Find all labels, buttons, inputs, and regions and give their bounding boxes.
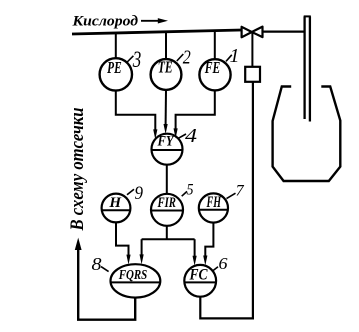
label: Кислород (oxygen inlet)	[71, 14, 138, 30]
oxygen lance tube	[304, 16, 311, 121]
instrument TE	[151, 58, 182, 90]
svg-text:5: 5	[187, 182, 194, 199]
wire: valve actuator stem	[251, 32, 253, 67]
wire: FY to FIR	[166, 165, 168, 194]
instrument FQRS	[110, 264, 160, 297]
instrument FH	[199, 193, 229, 222]
vessel (converter)	[273, 87, 341, 182]
instrument FIR	[151, 194, 183, 226]
svg-text:FIR: FIR	[157, 195, 176, 211]
label 6	[213, 254, 229, 273]
svg-text:FC: FC	[189, 267, 208, 284]
svg-text:1: 1	[230, 45, 240, 67]
svg-text:В схему отсечки: В схему отсечки	[67, 108, 88, 232]
label 4	[179, 125, 198, 147]
svg-text:7: 7	[236, 183, 245, 200]
label 5	[182, 182, 194, 199]
wire: pipe from valve to lance	[262, 31, 305, 33]
label 9	[127, 183, 143, 204]
svg-text:TE: TE	[158, 58, 173, 77]
wire: tap to PE	[115, 33, 117, 58]
flow arrow after Кислород	[141, 18, 168, 23]
label 3	[127, 47, 142, 72]
label 7	[227, 183, 245, 200]
svg-text:8: 8	[92, 254, 102, 274]
wire: tap to FE	[214, 31, 216, 59]
actuator square	[245, 67, 260, 82]
wire: FH to FC	[203, 223, 213, 266]
svg-text:H: H	[108, 195, 122, 211]
svg-text:4: 4	[185, 125, 197, 147]
label 1	[226, 45, 240, 67]
instrument FY	[152, 134, 183, 165]
label 2	[177, 47, 191, 69]
wire: FE to FY	[174, 90, 215, 138]
instrument H	[101, 194, 131, 223]
wire: TE to FY	[164, 90, 168, 134]
wire: FQRS output to cutoff circuit	[78, 248, 135, 320]
wire: H to FQRS	[116, 223, 131, 265]
svg-text:3: 3	[132, 47, 141, 72]
svg-text:FY: FY	[157, 134, 175, 150]
svg-text:FH: FH	[206, 194, 221, 211]
wire: FIR to FQRS	[140, 239, 144, 264]
wire: FIR branch node	[142, 226, 195, 239]
wire: PE to FY	[116, 91, 158, 140]
svg-text:PE: PE	[106, 58, 121, 77]
wire: FIR to FC	[193, 239, 197, 266]
valve V1	[242, 27, 263, 38]
instrument FC	[184, 265, 216, 297]
wire: FC output drop	[199, 297, 201, 320]
svg-text:2: 2	[183, 47, 191, 69]
wire: control line from FC up to actuator	[200, 82, 253, 319]
label 8	[92, 254, 109, 274]
wire: tap to TE	[165, 32, 167, 59]
svg-text:9: 9	[134, 183, 143, 204]
label: В схему отсечки	[67, 108, 88, 232]
svg-text:Кислород: Кислород	[71, 14, 138, 30]
arrow: to cutoff circuit	[75, 238, 82, 250]
svg-text:6: 6	[219, 254, 229, 273]
instrument PE	[100, 58, 132, 90]
instrument FE	[199, 58, 230, 90]
svg-text:FQRS: FQRS	[118, 268, 147, 283]
svg-text:FE: FE	[204, 58, 220, 77]
wire: main oxygen pipe	[72, 30, 242, 34]
